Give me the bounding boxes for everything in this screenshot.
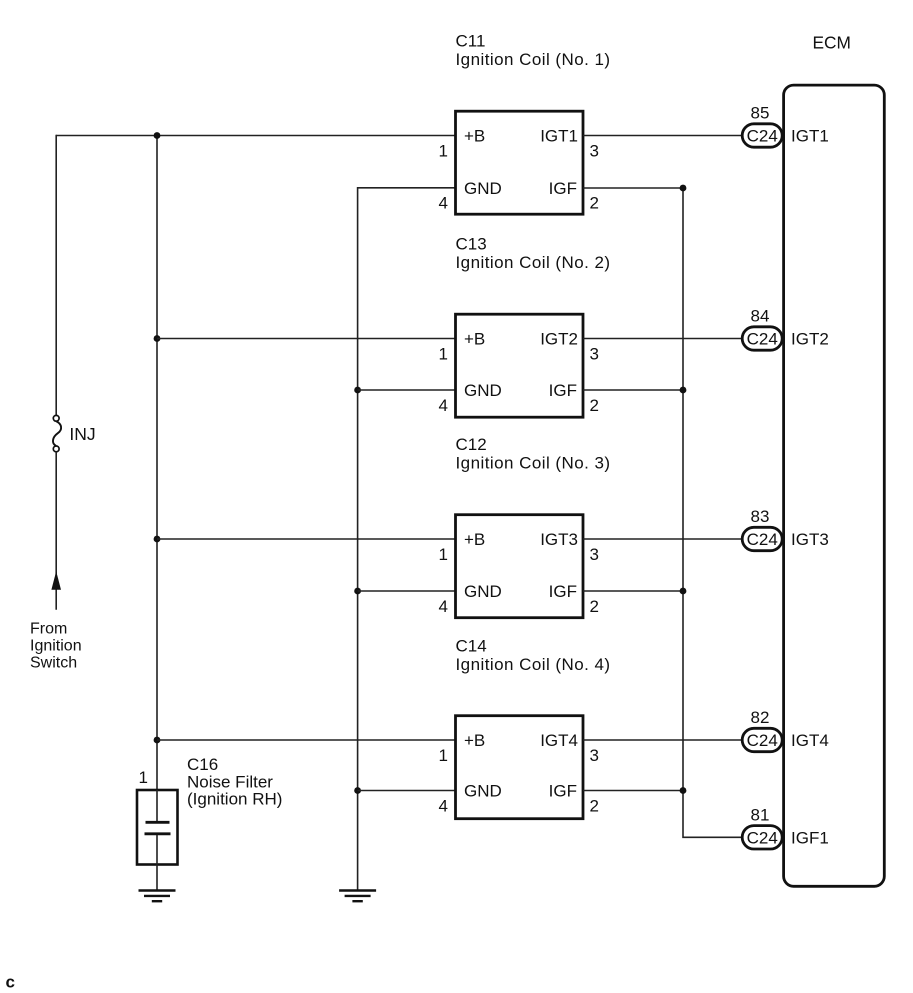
svg-text:1: 1 bbox=[439, 141, 448, 160]
svg-text:IGT1: IGT1 bbox=[791, 127, 829, 146]
svg-text:C13: C13 bbox=[456, 235, 487, 254]
svg-text:ECM: ECM bbox=[813, 32, 851, 52]
svg-text:GND: GND bbox=[464, 381, 502, 400]
svg-text:IGF1: IGF1 bbox=[791, 829, 829, 848]
svg-text:INJ: INJ bbox=[69, 424, 95, 444]
wire: +B to coil 4 bbox=[157, 739, 456, 741]
svg-text:84: 84 bbox=[751, 307, 770, 326]
node: GND bus coil3 junction bbox=[354, 588, 361, 595]
connector C24 pin 82 (IGT4) bbox=[742, 708, 829, 752]
wire: IGT3 coil3 pin3 to ECM bbox=[583, 538, 742, 540]
svg-text:2: 2 bbox=[590, 396, 599, 415]
wire: left bus below fuse bbox=[55, 452, 57, 610]
node: bus2 coil2 junction bbox=[154, 335, 161, 342]
svg-text:+B: +B bbox=[464, 731, 485, 750]
wire: +B distribution bus (x=157) bbox=[156, 136, 158, 791]
svg-text:IGT2: IGT2 bbox=[540, 330, 578, 349]
svg-text:3: 3 bbox=[590, 545, 599, 564]
svg-text:4: 4 bbox=[439, 396, 448, 415]
wire: left bus vertical down to fuse INJ bbox=[55, 135, 57, 416]
svg-text:IGT2: IGT2 bbox=[791, 330, 829, 349]
wire: IGF coil1 pin2 to IGF bus bbox=[583, 187, 683, 189]
connector C24 pin 84 (IGT2) bbox=[742, 307, 829, 351]
ground: under C16 bbox=[139, 891, 176, 902]
ground: middle (GND bus) bbox=[339, 891, 376, 902]
svg-text:IGT3: IGT3 bbox=[540, 530, 578, 549]
wire: GND to coil 3 bbox=[358, 590, 456, 592]
ignition coil U-C12 (No. 3) bbox=[439, 435, 611, 618]
svg-text:+B: +B bbox=[464, 330, 485, 349]
svg-text:IGT4: IGT4 bbox=[791, 731, 829, 750]
svg-text:GND: GND bbox=[464, 179, 502, 198]
node: IGF bus coil3 junction bbox=[680, 588, 687, 595]
ignition coil U-C14 (No. 4) bbox=[439, 637, 611, 819]
wire: IGF coil2 pin2 to IGF bus bbox=[583, 389, 683, 391]
node: bus2 coil4 junction bbox=[154, 737, 161, 744]
wire: IGT2 coil2 pin3 to ECM bbox=[583, 338, 742, 340]
svg-text:1: 1 bbox=[439, 746, 448, 765]
wire: +B feed from ignition switch to coil 1 pin 1 bbox=[56, 135, 455, 137]
svg-text:82: 82 bbox=[751, 708, 770, 727]
svg-text:C11: C11 bbox=[456, 32, 486, 51]
svg-text:IGF: IGF bbox=[549, 782, 577, 801]
svg-text:1: 1 bbox=[139, 768, 148, 787]
svg-text:81: 81 bbox=[751, 805, 770, 824]
wire: +B to coil 3 bbox=[157, 538, 456, 540]
svg-text:IGF: IGF bbox=[549, 582, 577, 601]
svg-text:C16: C16 bbox=[187, 755, 218, 774]
svg-text:GND: GND bbox=[464, 782, 502, 801]
svg-text:1: 1 bbox=[439, 545, 448, 564]
svg-text:(Ignition RH): (Ignition RH) bbox=[187, 790, 282, 809]
svg-text:C24: C24 bbox=[747, 731, 778, 750]
svg-text:2: 2 bbox=[590, 796, 599, 815]
svg-text:4: 4 bbox=[439, 597, 448, 616]
wire: GND bus vertical (x=357.6) bbox=[358, 188, 456, 891]
svg-text:Ignition Coil (No. 2): Ignition Coil (No. 2) bbox=[456, 253, 611, 272]
svg-text:2: 2 bbox=[590, 194, 599, 213]
wire: IGF bus vertical and run to ECM IGF1 bbox=[683, 188, 742, 837]
fuse INJ bbox=[53, 415, 96, 451]
svg-text:Ignition Coil (No. 4): Ignition Coil (No. 4) bbox=[456, 655, 611, 674]
svg-text:C24: C24 bbox=[747, 330, 778, 349]
connector C24 pin 85 (IGT1) bbox=[742, 104, 829, 148]
svg-text:2: 2 bbox=[590, 597, 599, 616]
svg-text:C12: C12 bbox=[456, 435, 487, 454]
svg-text:+B: +B bbox=[464, 530, 485, 549]
svg-text:Ignition Coil (No. 1): Ignition Coil (No. 1) bbox=[456, 50, 611, 69]
ignition coil U-C11 (No. 1) bbox=[439, 32, 611, 215]
wire: GND to coil 2 bbox=[358, 389, 456, 391]
svg-text:C24: C24 bbox=[747, 829, 778, 848]
node: IGF bus coil2 junction bbox=[680, 387, 687, 394]
capacitor C16 noise filter bbox=[137, 755, 282, 891]
svg-text:IGT1: IGT1 bbox=[540, 127, 578, 146]
svg-text:C24: C24 bbox=[747, 127, 778, 146]
svg-text:+B: +B bbox=[464, 127, 485, 146]
ignition coil U-C13 (No. 2) bbox=[439, 235, 611, 418]
connector C24 pin 83 (IGT3) bbox=[742, 507, 829, 551]
node: IGF bus coil1 junction bbox=[680, 185, 687, 192]
svg-text:C14: C14 bbox=[456, 637, 487, 656]
node: GND bus coil4 junction bbox=[354, 787, 361, 794]
wire: GND to coil 4 bbox=[358, 790, 456, 792]
node: GND bus coil2 junction bbox=[354, 387, 361, 394]
svg-text:Noise Filter: Noise Filter bbox=[187, 772, 273, 791]
svg-text:1: 1 bbox=[439, 344, 448, 363]
svg-text:3: 3 bbox=[590, 344, 599, 363]
wire: IGT1 coil1 pin3 to ECM bbox=[583, 135, 742, 137]
svg-text:IGF: IGF bbox=[549, 381, 577, 400]
wire: IGF coil3 pin2 to IGF bus bbox=[583, 590, 683, 592]
svg-text:From: From bbox=[30, 620, 67, 637]
svg-text:c: c bbox=[6, 973, 15, 992]
wire: +B to coil 2 bbox=[157, 338, 456, 340]
svg-text:83: 83 bbox=[751, 507, 770, 526]
svg-text:IGT3: IGT3 bbox=[791, 530, 829, 549]
arrow: from ignition switch (pointing up) bbox=[30, 571, 82, 671]
node: bus2 coil3 junction bbox=[154, 536, 161, 543]
node: IGF bus coil4 junction bbox=[680, 787, 687, 794]
svg-text:Switch: Switch bbox=[30, 654, 77, 671]
ECM U1 bbox=[784, 32, 885, 886]
svg-text:Ignition: Ignition bbox=[30, 637, 82, 654]
svg-text:4: 4 bbox=[439, 194, 448, 213]
connector C24 pin 81 (IGF1) bbox=[742, 805, 829, 849]
svg-text:4: 4 bbox=[439, 796, 448, 815]
svg-text:IGF: IGF bbox=[549, 179, 577, 198]
svg-text:GND: GND bbox=[464, 582, 502, 601]
svg-text:C24: C24 bbox=[747, 530, 778, 549]
svg-text:85: 85 bbox=[751, 104, 770, 123]
svg-text:Ignition Coil (No. 3): Ignition Coil (No. 3) bbox=[456, 454, 611, 473]
node: bus2 top junction bbox=[154, 132, 161, 139]
svg-text:3: 3 bbox=[590, 141, 599, 160]
svg-text:IGT4: IGT4 bbox=[540, 731, 578, 750]
wire: IGT4 coil4 pin3 to ECM bbox=[583, 739, 742, 741]
wire: IGF coil4 pin2 to IGF bus bbox=[583, 790, 683, 792]
svg-text:3: 3 bbox=[590, 746, 599, 765]
